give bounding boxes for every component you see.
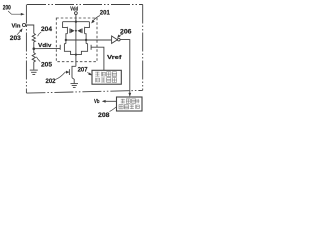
svg-text:208: 208 (98, 112, 110, 119)
leader from label 205 to resistor (36, 57, 40, 62)
transistor M4 right NMOS input (85, 40, 87, 44)
block 200 chain-line border (26, 5, 142, 94)
wire Vdd to rail (75, 15, 77, 22)
transistor M2 right PMOS load (85, 22, 90, 28)
leader from label 206 to inverter (117, 34, 123, 38)
box 207 reference voltage generator (92, 70, 121, 84)
svg-text:207: 207 (78, 67, 88, 74)
svg-text:Vdiv: Vdiv (38, 43, 53, 49)
svg-text:204: 204 (41, 26, 52, 33)
svg-text:203: 203 (10, 35, 21, 42)
svg-text:201: 201 (100, 10, 110, 17)
node gate tie center line (75, 22, 77, 55)
wire inverter output to block 208 (120, 40, 130, 94)
svg-text:Vref: Vref (107, 55, 122, 61)
kanji line 1 (reference voltage) (95, 72, 116, 77)
svg-text:200: 200 (3, 6, 12, 12)
leader from label 200 to border (8, 11, 25, 16)
kanji line 2 (setting circuit) (119, 105, 139, 109)
wire drain bus / output node to inverter (66, 39, 111, 41)
svg-text:Vdd: Vdd (70, 7, 78, 13)
inverter 206 (112, 36, 118, 43)
transistor M1 left PMOS load (63, 22, 68, 28)
kanji line 1 (bias) (121, 99, 140, 103)
wire Vin to divider (26, 25, 34, 33)
svg-text:Vin: Vin (12, 23, 21, 29)
leader from label 201 to dashed box (91, 16, 100, 24)
ground (divider) (30, 70, 38, 74)
svg-text:Vb: Vb (94, 99, 100, 105)
wire Vdd rail (63, 21, 90, 23)
node Vdiv (33, 47, 36, 50)
svg-text:205: 205 (41, 61, 52, 68)
transistor 202 tail current source (72, 65, 76, 67)
transistor M3 left NMOS input (65, 40, 67, 44)
leader from label 207 to box (87, 72, 92, 75)
wire Vdiv to comparator left input (34, 47, 60, 49)
leader from label 208 to box (110, 107, 117, 112)
wire Vb output (105, 100, 117, 102)
wire sources to tail (75, 54, 77, 56)
leader from label 204 to resistor (38, 32, 42, 36)
leader from label 203 to Vin terminal (17, 28, 23, 35)
comparator dashed box 201 (56, 18, 97, 62)
resistor 205 (32, 49, 35, 70)
leader from label 202 to transistor gate (55, 73, 65, 80)
wire Vref (91, 47, 104, 70)
resistor 204 (32, 33, 35, 48)
ground (tail) (71, 84, 79, 88)
box 208 (117, 97, 143, 111)
svg-text:202: 202 (46, 78, 56, 85)
kanji line 2 (generation circuit) (96, 78, 117, 83)
